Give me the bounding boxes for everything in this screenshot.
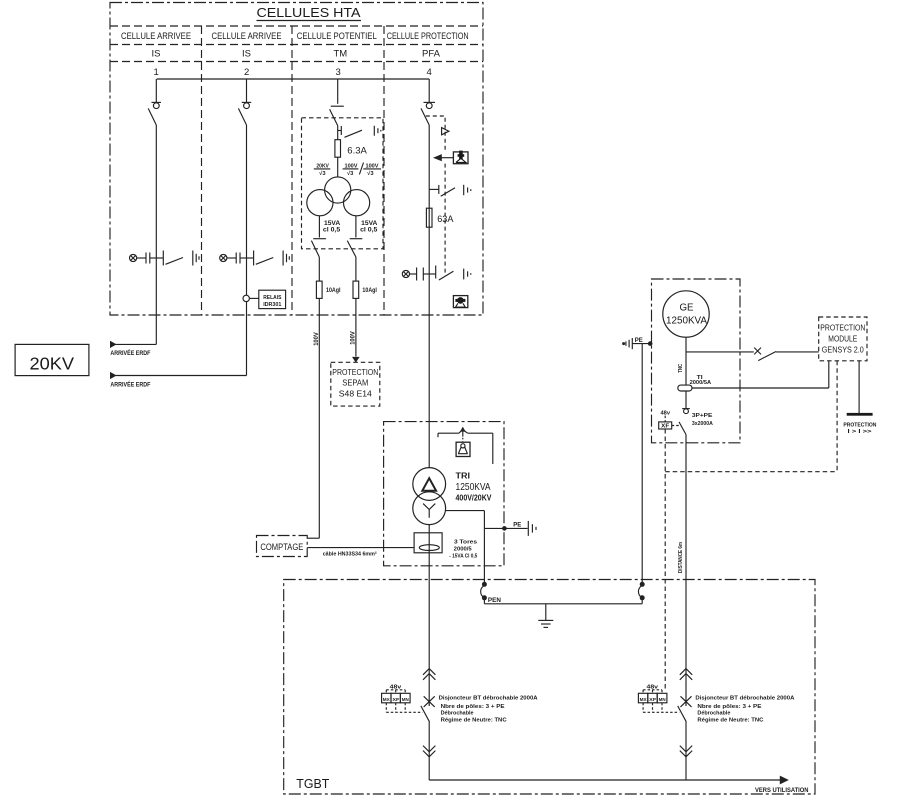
cell4 lower blade bbox=[439, 271, 454, 280]
control dashed drop from gensys bbox=[836, 361, 838, 472]
svg-text:CELLULE ARRIVEE: CELLULE ARRIVEE bbox=[121, 31, 191, 42]
trip arrow to alarm box bbox=[442, 157, 454, 159]
svg-text:MN: MN bbox=[402, 697, 409, 703]
20KV source box bbox=[15, 344, 89, 375]
TGBT bottom busbar bbox=[429, 779, 780, 781]
cell1 disconnector blade bbox=[148, 108, 156, 125]
cell4 earthing upper fixed bar bbox=[438, 185, 440, 194]
right aux top dashed bar bbox=[643, 689, 662, 691]
right 100V wire bbox=[355, 298, 357, 356]
svg-text:15VA: 15VA bbox=[324, 221, 341, 227]
svg-text:PROTECTION: PROTECTION bbox=[332, 368, 378, 377]
svg-text:2000/5: 2000/5 bbox=[454, 547, 473, 553]
CT ellipse bbox=[419, 545, 439, 551]
svg-text:TRI: TRI bbox=[456, 472, 471, 481]
cell1 capacitor bar b bbox=[149, 253, 151, 264]
cell3 wire to fuse bbox=[337, 126, 339, 140]
svg-text:3P+PE: 3P+PE bbox=[692, 413, 713, 419]
svg-text:1250KVA: 1250KVA bbox=[666, 316, 707, 327]
svg-text:100V: 100V bbox=[351, 331, 357, 345]
alarm icon 2 (bell) bbox=[455, 297, 465, 304]
cell4 earthing upper blade bbox=[441, 188, 455, 197]
wire fuse to VT bbox=[337, 157, 339, 177]
svg-text:I > I >>: I > I >> bbox=[848, 429, 872, 435]
VT right terminal bar bbox=[350, 238, 363, 240]
svg-text:câble HN33S34 6mm²: câble HN33S34 6mm² bbox=[323, 551, 377, 557]
svg-text:48v: 48v bbox=[390, 685, 403, 691]
svg-text:3x2000A: 3x2000A bbox=[692, 421, 713, 427]
left breaker drawout chevrons bottom bbox=[423, 746, 435, 757]
svg-text:PEN: PEN bbox=[488, 598, 501, 604]
svg-text:XF: XF bbox=[649, 697, 656, 703]
right breaker drawout chevrons top bbox=[680, 669, 692, 680]
VT left terminal bar bbox=[313, 238, 326, 240]
VT left secondary wire bbox=[318, 216, 320, 238]
SEPAM dashed box bbox=[331, 362, 380, 406]
VT secondary circle right bbox=[344, 190, 370, 216]
gensys switch cross bbox=[754, 348, 761, 355]
comptage turn wire bbox=[307, 537, 319, 539]
PEN ground bars bbox=[538, 619, 553, 621]
generator PE junction dot bbox=[648, 341, 653, 346]
transformer enclosure bbox=[384, 422, 504, 566]
generator GE circle bbox=[663, 291, 709, 337]
cell4 disconnector fixed contact tick bbox=[424, 101, 436, 103]
PE drop wire bbox=[483, 511, 485, 585]
svg-text:DISTANCE 6m: DISTANCE 6m bbox=[678, 542, 684, 573]
right breaker drawout chevrons bottom bbox=[680, 746, 692, 757]
TGBT enclosure bbox=[284, 580, 815, 795]
svg-text:63A: 63A bbox=[437, 214, 454, 225]
PE junction dot bbox=[502, 526, 507, 531]
right secondary blade bbox=[347, 241, 356, 257]
busbar output arrow bbox=[780, 776, 789, 785]
svg-text:ARRIVÉE ERDF: ARRIVÉE ERDF bbox=[110, 349, 150, 357]
generator breaker wire bbox=[685, 391, 687, 409]
right breaker blade bbox=[678, 706, 686, 721]
svg-text:TNC: TNC bbox=[678, 364, 684, 373]
svg-text:6.3A: 6.3A bbox=[347, 146, 367, 157]
svg-text:20KV: 20KV bbox=[30, 354, 75, 374]
right aux coil boxes MX XF MN bbox=[638, 693, 647, 703]
protection thick bar bbox=[847, 413, 873, 416]
svg-text:Disjoncteur BT débrochable 200: Disjoncteur BT débrochable 2000A bbox=[695, 695, 795, 701]
left aux top dashed bar bbox=[386, 689, 405, 691]
cell3 earthing ground bars bbox=[373, 126, 375, 136]
cell2 drop wire bbox=[246, 79, 248, 103]
svg-text:IS: IS bbox=[152, 49, 161, 60]
svg-text:Régime de Neutre: TNC: Régime de Neutre: TNC bbox=[441, 717, 508, 723]
arrival wire 2 bbox=[116, 375, 247, 377]
header row separator 2 bbox=[110, 44, 483, 46]
title underline bbox=[257, 20, 362, 22]
cell4 disconnector blade bbox=[421, 108, 429, 125]
svg-text:cl 0,5: cl 0,5 bbox=[323, 228, 341, 234]
cell2 capacitor bar b bbox=[239, 253, 241, 264]
svg-text:PROTECTION: PROTECTION bbox=[843, 422, 876, 428]
generator enclosure bbox=[652, 279, 741, 443]
cell4 lamp bbox=[402, 270, 409, 277]
svg-text:15VA: 15VA bbox=[361, 221, 378, 227]
svg-text:CELLULE POTENTIEL: CELLULE POTENTIEL bbox=[297, 31, 377, 42]
transformer TRI primary circle bbox=[413, 468, 446, 501]
svg-text:PE: PE bbox=[513, 522, 521, 529]
cell4 disconnector circle bbox=[426, 103, 432, 109]
wire wye to PE drop bbox=[446, 510, 485, 512]
svg-text:400V/20KV: 400V/20KV bbox=[456, 494, 493, 503]
PE riser link lower dot bbox=[640, 595, 645, 600]
svg-text:100V: 100V bbox=[314, 332, 320, 346]
left breaker drawout chevrons top bbox=[423, 669, 435, 680]
arrival arrow 2 bbox=[110, 372, 117, 379]
fuse 10AgI left bbox=[316, 281, 322, 298]
cell4 control dashed link bbox=[426, 116, 445, 153]
XF label stub bbox=[664, 416, 666, 422]
VT secondary circle left bbox=[307, 190, 333, 216]
PE ground bars bbox=[527, 521, 529, 536]
wye symbol bbox=[423, 504, 435, 518]
left breaker cross bbox=[424, 696, 435, 707]
svg-text:100V: 100V bbox=[345, 163, 358, 169]
alarm arrow shaft bbox=[462, 431, 464, 437]
PE tee wire bbox=[484, 527, 527, 529]
left secondary blade bbox=[311, 241, 319, 257]
relay box RELAIS IDR301 bbox=[259, 290, 286, 308]
column separator 3 bbox=[383, 26, 385, 315]
header row separator 1 bbox=[110, 25, 483, 27]
PEN link upper dot bbox=[482, 582, 487, 587]
fuse 6.3A body bbox=[335, 140, 341, 158]
svg-text:1250KVA: 1250KVA bbox=[456, 481, 491, 493]
ratio fraction bars bbox=[314, 168, 331, 170]
wire to gensys switch bbox=[686, 351, 754, 353]
left wire to fuse bbox=[318, 257, 320, 281]
CELLULES HTA outer frame bbox=[110, 3, 483, 316]
svg-text:2: 2 bbox=[244, 67, 249, 78]
svg-text:3 Tores: 3 Tores bbox=[454, 539, 477, 545]
bell icon bbox=[461, 444, 465, 448]
left 100V wire bbox=[318, 298, 320, 538]
cell4 capacitor bar a bbox=[416, 268, 418, 281]
cell2 earthing switch wire bbox=[227, 257, 236, 259]
COMPTAGE box bbox=[257, 536, 308, 557]
generator feeder wire bbox=[685, 435, 687, 707]
PEN link lower dot bbox=[482, 595, 487, 600]
cell4 lamp wire bbox=[410, 273, 417, 275]
alarm bracket peak bbox=[459, 431, 462, 434]
generator output wire bbox=[685, 337, 687, 385]
cell2 capacitor bar a bbox=[235, 253, 237, 264]
svg-text:20KV: 20KV bbox=[316, 163, 329, 169]
cell3 earthing fixed bar bbox=[340, 126, 342, 135]
left breaker lower wire bbox=[428, 721, 430, 780]
wire blade to gensys bbox=[776, 351, 819, 353]
arrow into SEPAM bbox=[352, 357, 360, 363]
XF coil box bbox=[659, 422, 672, 429]
svg-text:√3: √3 bbox=[367, 170, 373, 177]
cell4 earthing switch upper stub bbox=[429, 188, 439, 190]
cell4 lower earthing wire bbox=[423, 273, 435, 275]
cell3 earthing stub bbox=[338, 130, 342, 132]
left aux coil boxes MX XF MN bbox=[382, 693, 391, 703]
right breaker cross bbox=[681, 696, 692, 707]
svg-text:CELLULES HTA: CELLULES HTA bbox=[257, 6, 362, 20]
svg-text:GE: GE bbox=[680, 302, 694, 314]
cell2 earthing wire through bbox=[240, 257, 254, 259]
cell1 earthing blade bbox=[166, 258, 184, 265]
transformer alarm box bbox=[456, 442, 470, 456]
TI output wire bbox=[692, 387, 829, 389]
alarm box 1 bbox=[453, 152, 468, 164]
svg-text:IDR301: IDR301 bbox=[263, 302, 281, 308]
CT box bbox=[414, 533, 442, 553]
svg-text:GENSYS 2.0: GENSYS 2.0 bbox=[822, 346, 864, 355]
cell1 disconnector fixed contact tick bbox=[152, 101, 162, 103]
fuse 63A body bbox=[426, 208, 432, 227]
svg-text:√3: √3 bbox=[319, 170, 325, 177]
open triangle symbol bbox=[442, 128, 449, 135]
gensys switch blade bbox=[758, 352, 776, 361]
control dashed riser bbox=[664, 429, 666, 690]
svg-text:RELAIS: RELAIS bbox=[263, 295, 281, 301]
cell4 capacitor bar b bbox=[422, 268, 424, 281]
svg-text:MODULE: MODULE bbox=[828, 335, 857, 344]
svg-text:SEPAM: SEPAM bbox=[342, 379, 368, 388]
GENSYS module dashed box bbox=[819, 317, 867, 361]
cell1 lamp bbox=[130, 254, 137, 261]
svg-text:S48 E14: S48 E14 bbox=[339, 390, 373, 399]
generator breaker circle bbox=[684, 409, 689, 414]
svg-text:100V: 100V bbox=[366, 163, 379, 169]
PEN flexible link left bbox=[481, 586, 485, 598]
right wire to fuse bbox=[355, 257, 357, 281]
generator PE wire bbox=[632, 343, 651, 345]
alarm arrow head bbox=[460, 427, 466, 432]
cell2 earthing blade bbox=[256, 258, 273, 265]
header row separator 3 bbox=[110, 61, 483, 63]
svg-text:MX: MX bbox=[640, 697, 648, 703]
svg-text:cl 0,5: cl 0,5 bbox=[360, 228, 378, 234]
cell3 earthing blade bbox=[345, 130, 363, 137]
svg-text:- 15VA Cl 0,5: - 15VA Cl 0,5 bbox=[449, 554, 478, 560]
svg-text:MN: MN bbox=[659, 697, 666, 703]
svg-text:XF: XF bbox=[392, 697, 399, 703]
wire toroid to relay bbox=[249, 297, 258, 299]
LV main wire bbox=[428, 525, 430, 706]
transformer TRI secondary circle bbox=[413, 492, 446, 525]
cell4 lower fixed bar bbox=[435, 266, 437, 279]
cell2 ground bars bbox=[282, 251, 284, 266]
generator PE ground bars bbox=[623, 343, 625, 345]
alarm bracket drop bbox=[492, 433, 494, 464]
alarm icon 1 (klaxon) bbox=[458, 151, 465, 160]
svg-text:PROTECTION: PROTECTION bbox=[820, 324, 865, 333]
VT primary circle bbox=[325, 177, 351, 203]
cell1 disconnector circle bbox=[153, 103, 159, 109]
cell1 drop wire bbox=[155, 79, 157, 103]
cell3 switch fixed contact bar bbox=[331, 105, 344, 107]
svg-text:2000/5A: 2000/5A bbox=[690, 380, 712, 386]
cell1 fixed contact bar bbox=[162, 251, 164, 266]
left breaker blade bbox=[421, 706, 429, 721]
alarm bracket right bbox=[468, 432, 493, 434]
PE riser flexible link bbox=[638, 586, 642, 598]
PE riser stub bbox=[641, 598, 643, 604]
svg-text:48v: 48v bbox=[647, 685, 660, 691]
generator breaker tick bbox=[682, 408, 690, 410]
svg-text:√3: √3 bbox=[347, 170, 353, 177]
cell1 earthing wire through bbox=[150, 257, 164, 259]
svg-text:TGBT: TGBT bbox=[296, 776, 329, 791]
cell4 lower ground bars bbox=[463, 269, 465, 280]
svg-text:Débrochable: Débrochable bbox=[441, 711, 475, 717]
right breaker lower wire bbox=[685, 721, 687, 780]
cell2 disconnector circle bbox=[244, 103, 250, 109]
cell4 drop wire bbox=[428, 79, 430, 103]
TI wire up to gensys bbox=[828, 361, 830, 388]
alarm dotted link bbox=[462, 438, 464, 442]
svg-text:MX: MX bbox=[383, 697, 391, 703]
cell2 lamp bbox=[220, 254, 227, 261]
svg-text:10AgI: 10AgI bbox=[326, 288, 341, 294]
fuse 10AgI right bbox=[353, 281, 359, 298]
cell1 earthing switch wire bbox=[137, 257, 146, 259]
svg-text:1: 1 bbox=[154, 67, 159, 78]
svg-text:ARRIVÉE ERDF: ARRIVÉE ERDF bbox=[110, 381, 150, 389]
generator breaker blade bbox=[679, 422, 686, 435]
column separator 2 bbox=[291, 26, 293, 315]
delta symbol bbox=[422, 478, 436, 491]
VT dashed enclosure bbox=[302, 118, 384, 249]
svg-text:Nbre de pôles: 3 + PE: Nbre de pôles: 3 + PE bbox=[441, 704, 505, 710]
right aux bottom dashed links bbox=[642, 703, 644, 713]
cell1 capacitor bar a bbox=[145, 253, 147, 264]
svg-text:10AgI: 10AgI bbox=[362, 288, 377, 294]
svg-text:XF: XF bbox=[661, 424, 670, 430]
svg-text:4: 4 bbox=[427, 67, 432, 78]
PEN busbar bbox=[484, 603, 642, 605]
alarm bracket tick bbox=[437, 433, 439, 437]
svg-text:VERS UTILISATION: VERS UTILISATION bbox=[755, 788, 809, 794]
PEN ground stem bbox=[545, 604, 547, 621]
metering cable wire bbox=[307, 547, 414, 549]
control dashed crossbar bbox=[665, 471, 837, 473]
cell2 toroid sensor bbox=[243, 295, 249, 301]
VT right secondary wire bbox=[355, 216, 357, 238]
svg-text:Régime de Neutre: TNC: Régime de Neutre: TNC bbox=[697, 717, 764, 723]
svg-text:3: 3 bbox=[336, 67, 341, 78]
arrival arrow 1 bbox=[110, 341, 117, 348]
svg-text:PFA: PFA bbox=[422, 49, 441, 60]
svg-text:PE: PE bbox=[635, 338, 643, 344]
column separator 1 bbox=[201, 26, 203, 315]
PEN stub bbox=[483, 598, 485, 604]
cell3 switch blade bbox=[330, 109, 338, 125]
svg-text:Nbre de pôles: 3 + PE: Nbre de pôles: 3 + PE bbox=[697, 704, 761, 710]
cell1 main wire bbox=[155, 125, 157, 344]
alarm box 2 bbox=[453, 296, 467, 308]
left aux bottom dashed links bbox=[385, 703, 387, 713]
svg-text:Disjoncteur BT débrochable 200: Disjoncteur BT débrochable 2000A bbox=[439, 695, 539, 701]
XF dashed link to blade bbox=[672, 425, 679, 427]
cell3 drop wire bbox=[337, 79, 339, 104]
cell2 main wire bbox=[246, 125, 248, 376]
TI current transformer pill bbox=[678, 385, 692, 391]
PE riser link upper dot bbox=[640, 582, 645, 587]
gensys protection output wire bbox=[858, 361, 860, 413]
svg-text:TM: TM bbox=[334, 49, 348, 60]
alarm bracket left bbox=[438, 432, 459, 434]
cell4 earthing upper ground bars bbox=[463, 185, 465, 195]
cell2 disconnector blade bbox=[238, 108, 246, 125]
svg-text:COMPTAGE: COMPTAGE bbox=[260, 542, 303, 553]
svg-text:Débrochable: Débrochable bbox=[697, 711, 731, 717]
svg-text:CELLULE ARRIVEE: CELLULE ARRIVEE bbox=[212, 31, 282, 42]
svg-text:IS: IS bbox=[242, 49, 251, 60]
arrival wire 1 bbox=[116, 343, 157, 345]
svg-text:CELLULE PROTECTION: CELLULE PROTECTION bbox=[387, 31, 469, 42]
HTA busbar bbox=[157, 78, 430, 80]
cell1 ground bars bbox=[192, 251, 194, 266]
cell4 main wire down to transformer bbox=[428, 125, 430, 468]
PE riser wire bbox=[641, 344, 643, 585]
cell2 fixed contact bar bbox=[253, 251, 255, 266]
cell2 disconnector fixed contact tick bbox=[242, 101, 252, 103]
